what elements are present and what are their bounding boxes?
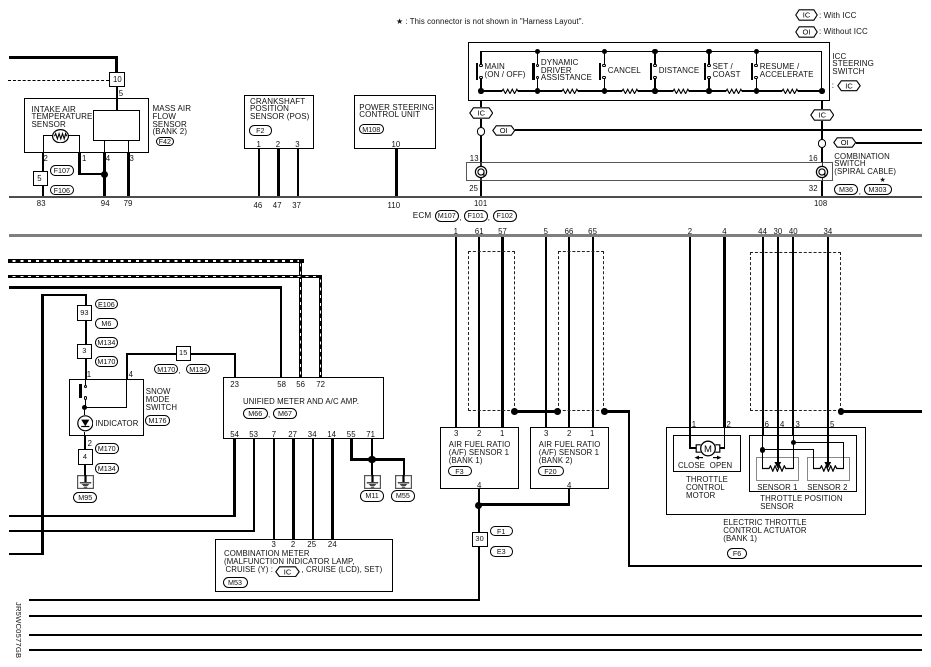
wire shield TPS to right edge [841, 410, 922, 412]
wire contact to node [85, 400, 86, 406]
label ECM terminals 83 94 79 [37, 199, 46, 208]
wire POS pin 1 to ECM 46 [258, 149, 260, 197]
connector tag M170 lower [95, 443, 119, 454]
label COMBINATION METER [224, 549, 310, 558]
labels meter bottom pins [230, 430, 239, 439]
wire ECM 40 to TPS pin 3 [792, 237, 794, 427]
sensor 2 box of TPS [807, 457, 850, 480]
label SNOW MODE SWITCH [146, 387, 171, 396]
open junction node left OI [477, 127, 485, 135]
wire meter 27 to combination meter 2 [292, 439, 294, 538]
air fuel ratio sensor 1 bank 1 box F3 [440, 427, 519, 489]
label CLOSE OPEN [678, 461, 705, 470]
resistor ICC switch ladder 6 [782, 88, 798, 95]
wire snow pin 4 to connector 15 line [126, 353, 128, 380]
indicator LED snow mode [77, 415, 94, 432]
junction node shield A/F2 left [554, 408, 561, 415]
wire meter 34 to combination meter 25 [312, 439, 314, 538]
junction node bottom rail at DISTANCE [652, 88, 657, 93]
wire TPS pin 6 into sensor 1 left [762, 427, 764, 436]
switch MAIN of ICC steering switch [480, 51, 481, 64]
svg-text:IC: IC [477, 109, 485, 118]
label MAF pin numbers [44, 154, 48, 163]
wire snow pin 2 to connector 4 [84, 436, 86, 449]
ground M55 [395, 475, 412, 489]
wire ECM 2 to throttle motor pin 1 [689, 237, 691, 427]
switch SET of ICC steering switch [708, 51, 709, 64]
connector tag F2 [249, 125, 272, 136]
connector tag M134 lower [95, 463, 119, 474]
wire indicator to pin 2 [84, 432, 85, 437]
junction node ground wires [368, 456, 375, 463]
wire meter 55 to ground M55 [350, 439, 352, 460]
ground M95 [77, 475, 94, 489]
label spiral cable pin 16 [809, 154, 818, 163]
wire tag IC to OI node [480, 119, 482, 128]
label throttle actuator pins [692, 420, 696, 429]
wire without-ICC branch right to right edge [856, 142, 922, 144]
junction node pin 6 [760, 447, 765, 452]
note star harness layout [396, 17, 584, 26]
wire ECM 66 to A/F sensor 2 pin 2 [568, 237, 570, 428]
connector tag E3 [490, 546, 513, 557]
snow mode switch box M176 [69, 379, 144, 437]
wire POS pin 3 to ECM 37 [297, 149, 299, 197]
connector 15 [176, 346, 191, 361]
wire snow switch pin 1 up chain [85, 294, 87, 305]
wire through spiral cable left [480, 162, 481, 181]
wire ECM 57 to A/F sensor 1 pin 1 [501, 237, 503, 428]
junction node bottom rail at MAIN [478, 88, 483, 93]
connector 5 on wire 83 [33, 171, 49, 186]
svg-text:IC: IC [845, 82, 853, 91]
wire right OI node to spiral cable 16 [821, 148, 823, 163]
wire thermistor to pin 1 [68, 135, 80, 136]
junction node bottom rail right end [819, 88, 824, 93]
junction node bottom rail at RESUME [754, 88, 759, 93]
resistor ICC switch ladder 4 [673, 88, 689, 95]
legend tag OI without ICC [795, 26, 818, 38]
connector tag M170 on line 15 [154, 364, 178, 375]
label snow switch pin 1 [87, 370, 91, 379]
unified meter and AC amp box [223, 377, 384, 439]
label ECM with connector tags M107 F101 F102 [413, 211, 432, 221]
connector tag F42 [156, 137, 174, 146]
resistor sensor 2 of TPS [813, 465, 845, 472]
wire MAF pin 1 jog to pin 4 node [78, 153, 80, 175]
junction node bottom rail at DDA [535, 88, 540, 93]
junction node top rail at RESUME [754, 49, 759, 54]
ground tag M11 [360, 490, 384, 502]
legend tag IC with ICC [795, 9, 818, 21]
connector tag F106 [50, 185, 74, 196]
combination meter box M53 [215, 539, 393, 593]
junction node A/F ground wires [475, 502, 482, 509]
tag IC on right switch wire [810, 109, 835, 121]
svg-text:OI: OI [840, 138, 848, 147]
label ICC STEERING SWITCH [832, 52, 846, 62]
ground M11 [364, 475, 381, 489]
connector tag M303 [864, 184, 892, 195]
wire ECM 34 to TPS pin 5 [827, 237, 829, 427]
ICC steering switch box [468, 42, 830, 101]
label ELECTRIC THROTTLE CONTROL ACTUATOR [723, 518, 806, 527]
wire option dashed to meter 56 [8, 259, 304, 262]
wire connector 3 to snow switch pin 1 [85, 359, 87, 379]
wiper arrow sensor 1 [774, 462, 782, 469]
wire ICC switch left leg to tag IC [480, 101, 482, 108]
wire solid to meter 58 [9, 286, 282, 288]
switch CANCEL of ICC steering switch [604, 51, 605, 64]
connector tag M134 on line 15 [186, 364, 210, 375]
wire meter 54 to left stub [233, 439, 235, 516]
wire ECM 4 to throttle motor pin 2 [723, 237, 725, 427]
wire POS pin 2 to ECM 47 [277, 149, 279, 197]
shield box throttle position sensor [750, 252, 841, 411]
label INDICATOR [95, 419, 138, 428]
junction node top rail at DISTANCE [652, 49, 657, 54]
shield box A/F sensor 1 [468, 251, 515, 411]
wire A/F1 pin 4 down [478, 489, 480, 506]
wire tag IC to right OI node [821, 121, 823, 140]
connector tag M53 [223, 577, 248, 588]
junction node bottom rail at CANCEL [602, 88, 607, 93]
wire TPS pin 3 into sensor 1 right [792, 427, 794, 436]
label ECM terminal 101 [474, 199, 487, 208]
svg-text:OI: OI [802, 27, 810, 36]
resistor ICC switch ladder 5 [726, 88, 742, 95]
labels meter top pins 23 58 56 72 [230, 380, 239, 389]
labels combination meter pins 3 2 25 24 [272, 540, 276, 549]
wire connector 30 down to left run [478, 547, 480, 600]
connector tag F1 [490, 526, 513, 537]
tag IC on left switch wire [469, 107, 494, 119]
wire ECM 5 to A/F sensor 2 pin 3 [545, 237, 547, 428]
label snow switch pin 4 [129, 370, 133, 379]
label SENSOR 2 [807, 483, 847, 492]
connector 3 on snow switch wire [77, 344, 92, 359]
wire MAF pin 3 to ECM 79 [128, 141, 129, 153]
label COMBINATION SWITCH SPIRAL CABLE [834, 152, 890, 161]
wire right rail ICC switch [821, 51, 822, 91]
wire spiral cable 32 to ECM 108 [821, 181, 823, 197]
switch DDA of ICC steering switch [537, 51, 538, 64]
junction node shield TPS [838, 408, 845, 415]
junction node top rail at SET [706, 49, 711, 54]
connector tag F107 [50, 165, 74, 176]
label UNIFIED METER AND A/C AMP. [243, 397, 359, 406]
junction node snow switch [82, 405, 87, 410]
tag OI on right branch [833, 137, 857, 148]
wire ECM 1 to A/F sensor 1 pin 3 [455, 237, 457, 428]
label spiral cable pin 13 [470, 154, 479, 163]
resistor ICC switch ladder 2 [562, 88, 578, 95]
junction node top rail at DDA [535, 49, 540, 54]
svg-text:M: M [704, 443, 712, 454]
connector 30 on A/F ground wire [472, 532, 488, 547]
electric throttle control actuator box F6 [666, 427, 866, 516]
ground tag M55 [391, 490, 415, 502]
switch RESUME of ICC steering switch [756, 51, 757, 64]
connector tag M6 [95, 318, 119, 329]
wire TPS pin 4 to sensor 1 wiper [777, 427, 779, 436]
ground tag M95 [73, 492, 97, 503]
junction node top rail at CANCEL [602, 49, 607, 54]
wire motor pin 1 into motor [689, 427, 690, 449]
wiper arrow sensor 2 [824, 462, 832, 469]
connector tag F20 [538, 466, 564, 477]
connector tag M176 [145, 415, 170, 426]
label spiral cable pin 32 [809, 184, 818, 193]
svg-text:IC: IC [802, 11, 810, 20]
bus rail bottom inside ICC switch [480, 90, 822, 91]
resistor sensor 1 of TPS [762, 465, 794, 472]
label THROTTLE CONTROL MOTOR [686, 475, 728, 484]
mass air flow sensor outer box F42 [24, 98, 149, 153]
connector tag F6 [727, 548, 747, 559]
switch DISTANCE of ICC steering switch [654, 51, 655, 64]
svg-text:IC: IC [818, 111, 826, 120]
connector tag M66 [243, 408, 268, 419]
spiral coil right [815, 165, 829, 179]
wire bottom run 2 [29, 615, 922, 617]
thermistor intake air temp sensor [52, 129, 69, 144]
wire pin 3 jumper to sensor 2 right [793, 442, 844, 443]
bus rail top inside ICC switch [480, 51, 822, 52]
wire ECM 30 to TPS pin 4 [777, 237, 779, 427]
connector tag E106 [95, 299, 119, 310]
wire option dashed to meter 72 [8, 275, 321, 278]
wire node to pin 4 riser [85, 407, 127, 408]
connector tag M67 [273, 408, 298, 419]
svg-text:OI: OI [499, 126, 507, 135]
wire connector 15 to meter 23 [126, 353, 236, 355]
arrows close open of throttle motor [694, 455, 722, 461]
junction node bottom rail at SET [706, 88, 711, 93]
label snow switch pin 2 [88, 439, 92, 448]
wire meter 14 to combination meter 24 [331, 439, 333, 538]
wire connector 4 to ground M95 [84, 465, 86, 476]
wire ECM 61 to A/F sensor 1 pin 2 [478, 237, 480, 428]
wire ECM 65 to A/F sensor 2 pin 1 [592, 237, 594, 428]
connector tag F3 [448, 466, 472, 477]
wire ICC switch right leg to tag IC [821, 101, 823, 110]
wire motor pin 2 into motor [724, 427, 725, 449]
connector 4 on ground wire [78, 449, 93, 464]
mass air flow sensor inner element box [93, 110, 141, 142]
wire bridge left vertical to bottom stub [41, 294, 86, 296]
throttle position sensor box [749, 435, 858, 492]
wire meter 53 to left stub [253, 439, 255, 532]
resistor ICC switch ladder 3 [622, 88, 638, 95]
label spiral cable pin 25 [469, 184, 478, 193]
label ECM terminal 110 [388, 201, 401, 210]
wire meter 7 to combination meter 3 [273, 439, 275, 538]
label intake air temperature sensor [32, 105, 76, 115]
wire A/F2 pin 4 jog to node [568, 489, 570, 506]
throttle control motor box [673, 435, 741, 472]
wire node to connector 30 [478, 505, 480, 532]
air fuel ratio sensor 1 bank 2 box F20 [530, 427, 609, 489]
junction node pins 1-4 [101, 171, 108, 178]
wire node to indicator [84, 410, 85, 415]
label ECM terminal 108 [814, 199, 827, 208]
wire MAF pin 4 to ECM 94 [104, 141, 105, 153]
wire dashed option to connector 10 [8, 80, 109, 81]
sensor 1 box of TPS [756, 457, 799, 480]
junction node shield A/F2 right [601, 408, 608, 415]
wire meter 71 to ground M11 [371, 439, 373, 475]
label MASS AIR FLOW SENSOR BANK 2 [153, 104, 192, 114]
connector 10 [109, 72, 125, 87]
switch contact snow mode [85, 379, 86, 385]
connector tag M170 upper [95, 356, 119, 367]
wire ECM 44 to TPS pin 6 [762, 237, 764, 427]
ECM bus lower [9, 234, 922, 236]
combination switch spiral cable box [466, 162, 833, 181]
label ECM terminals 46 47 37 [254, 201, 263, 210]
wire thermistor to pin 2 [43, 135, 53, 136]
wire shield link A/F1 to A/F2 [514, 410, 557, 412]
wire bottom run 4 [29, 649, 922, 651]
wire spiral cable 25 to ECM 101 [480, 181, 482, 197]
connector tag M134 upper [95, 337, 119, 348]
resistor ICC switch ladder 1 [502, 88, 518, 95]
wire through spiral cable right [822, 162, 823, 181]
wire PSCU pin 10 to ECM 110 [395, 149, 397, 197]
motor M symbol throttle control motor [694, 440, 722, 457]
svg-text:IC: IC [284, 567, 292, 576]
wire pin 6 jumper to sensor 2 left [763, 449, 814, 450]
label drawing number JR5WC0577GB [9, 602, 23, 660]
shield box A/F sensor 2 [558, 251, 605, 411]
wire trunk to MAF connector 10 [9, 56, 117, 59]
wire bottom run 3 [29, 634, 922, 636]
open junction node right OI [818, 139, 826, 147]
connector 93 on snow switch wire [77, 305, 92, 320]
wire TPS pin 5 to sensor 2 wiper [827, 427, 829, 436]
tag IC beside ICC switch [837, 80, 861, 92]
wire OI node to spiral cable 13 [480, 136, 482, 163]
power steering control unit box M108 [354, 95, 437, 149]
wire connector 93 to connector 3 [85, 321, 87, 344]
junction node shield A/F1 [511, 408, 518, 415]
tag OI on left branch [492, 125, 516, 136]
spiral coil left M36 [474, 165, 488, 179]
label PSCU pin 10 [392, 140, 401, 149]
label POS pins 1 2 3 [257, 140, 261, 149]
label THROTTLE POSITION SENSOR [760, 494, 842, 503]
tag IC in combination meter [275, 566, 300, 578]
ECM bus upper [9, 196, 922, 198]
labels ECM lower bus terminals [447, 227, 465, 236]
crankshaft position sensor box F2 [244, 95, 314, 149]
wire shield drain to lower right [604, 410, 630, 412]
wire connector 10 to MAF pin 5 [116, 87, 117, 109]
wire without-ICC branch left to right edge [515, 129, 923, 131]
wire MAF pin 2 to ECM 83 [42, 153, 44, 197]
junction node pin 3 [791, 440, 796, 445]
connector tag M108 [359, 124, 384, 135]
label SENSOR 1 [757, 483, 797, 492]
connector tag M36 [834, 184, 859, 195]
